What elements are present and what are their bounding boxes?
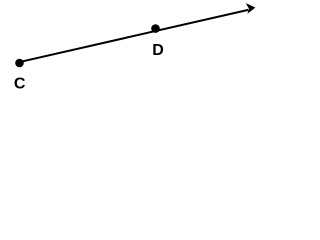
svg-text:C: C — [14, 75, 26, 92]
svg-text:D: D — [152, 42, 164, 59]
ray line from C through D — [21, 10, 249, 62]
point C dot — [15, 59, 24, 68]
arrowhead — [246, 3, 256, 14]
point D dot — [151, 24, 160, 33]
